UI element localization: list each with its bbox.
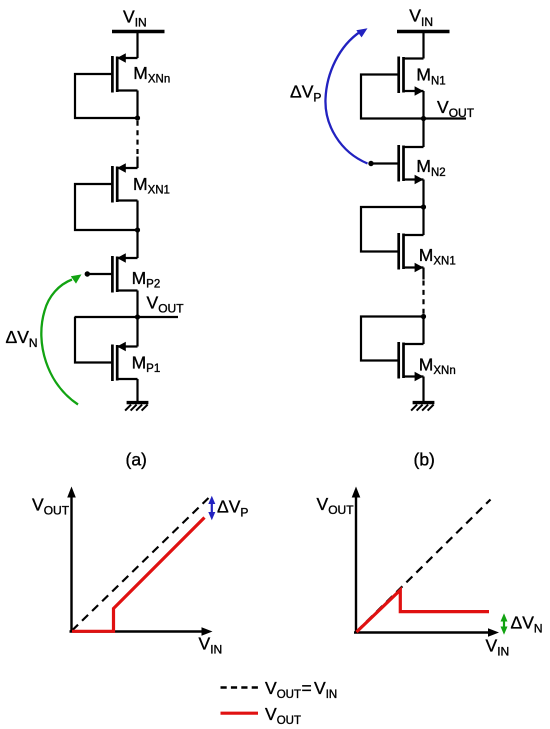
wire MN1 source to VOUT: [422, 91, 424, 119]
svg-text:MP2: MP2: [132, 268, 161, 291]
wire rail to MXNn drain: [136, 32, 138, 59]
GRAPH-LEFT: [32, 487, 248, 657]
wire MN2 gate lead: [373, 162, 398, 164]
svg-text:VOUT: VOUT: [32, 494, 70, 517]
svg-text:MXNn: MXNn: [133, 63, 170, 86]
wire rail to MN1 drain: [422, 32, 424, 59]
svg-text:VIN: VIN: [409, 6, 433, 29]
wire MXNn source to ground (b): [422, 377, 424, 403]
svg-text:VIN: VIN: [486, 635, 510, 658]
curve red VOUT left: [72, 518, 205, 632]
annotation arrow deltaVP measure: [208, 496, 215, 520]
curve dashed ideal left: [72, 498, 209, 631]
curve red VOUT right: [357, 590, 490, 632]
svg-text:MN1: MN1: [416, 65, 445, 88]
wire MXN1 gate diode loop: [75, 184, 138, 230]
transistor MN2: [399, 145, 424, 184]
node VOUT junction dot (a): [135, 314, 140, 319]
node MP2 gate terminal dot: [85, 271, 90, 276]
CIRCUIT-A: [6, 6, 185, 469]
wire MXNn gate diode loop: [75, 74, 138, 118]
svg-text:VOUT: VOUT: [317, 494, 355, 517]
transistor MXNn: [112, 53, 137, 92]
annotation arrow deltaVN measure: [501, 613, 508, 634]
annotation arrow deltaVN arc: [41, 280, 78, 405]
svg-text:VIN: VIN: [199, 633, 223, 656]
wire MP1 gate loop to VOUT: [75, 317, 111, 363]
node VOUT junction dot (b): [421, 116, 426, 121]
wire to MXN1 drain: [136, 157, 138, 169]
wire MXNn source down: [136, 91, 138, 119]
transistor MXN1: [112, 163, 137, 202]
svg-text:MXNn: MXNn: [419, 354, 456, 377]
wire to MXN1 drain (b): [422, 207, 424, 235]
node MN2 gate terminal dot: [368, 161, 373, 166]
x-axis right graph: [354, 631, 489, 633]
wire MP1 source to ground: [136, 379, 138, 402]
wire dashed stack continuation (b): [422, 281, 424, 315]
VIN supply rail (b): [397, 30, 450, 33]
ground (b): [411, 403, 434, 411]
svg-text:MXN1: MXN1: [419, 245, 456, 268]
svg-text:VOUT=VIN: VOUT=VIN: [265, 678, 337, 701]
svg-text:(a): (a): [126, 450, 147, 470]
transistor MP2: [112, 253, 137, 292]
GRAPH-RIGHT: [317, 487, 543, 659]
svg-text:MN2: MN2: [416, 156, 445, 179]
legend dashed line sample: [221, 686, 259, 689]
node junction dot (b1): [421, 204, 426, 209]
svg-text:ΔVN: ΔVN: [6, 327, 38, 350]
wire VOUT node to MP1 drain: [136, 317, 138, 347]
y-axis right graph: [355, 497, 357, 633]
x-axis left graph: [70, 630, 203, 632]
node junction dot (b2): [421, 314, 426, 319]
wire MXN1 gate diode loop (b): [361, 207, 424, 252]
wire to MP2 drain: [136, 230, 138, 258]
wire MN2 source down: [422, 180, 424, 208]
svg-text:ΔVP: ΔVP: [217, 496, 248, 519]
wire MN1 gate diode loop: [361, 75, 424, 119]
wire VOUT to MN2 drain: [422, 119, 424, 148]
transistor MN1: [399, 57, 424, 96]
LEGEND: [221, 678, 338, 727]
wire MP2 source to VOUT: [136, 291, 138, 318]
wire MXN1 source down: [136, 201, 138, 231]
svg-text:VIN: VIN: [123, 6, 147, 29]
transistor MXNn (b): [399, 342, 424, 381]
transistor MP1: [112, 342, 137, 381]
wire to MXNn drain (b): [422, 317, 424, 345]
svg-text:MXN1: MXN1: [133, 174, 170, 197]
ground (a): [125, 403, 148, 411]
CIRCUIT-B: [290, 6, 475, 470]
annotation arrow deltaVP arc: [325, 32, 367, 164]
y-axis left graph: [70, 497, 72, 632]
wire MP2 gate lead: [89, 273, 111, 275]
svg-text:VOUT: VOUT: [265, 704, 301, 727]
svg-text:VOUT: VOUT: [147, 292, 185, 315]
wire dashed stack continuation (a): [136, 121, 138, 157]
legend red line sample: [221, 712, 259, 715]
node junction dot (a2): [135, 227, 140, 232]
svg-text:ΔVP: ΔVP: [290, 81, 321, 104]
svg-text:(b): (b): [414, 450, 435, 470]
svg-text:ΔVN: ΔVN: [511, 612, 543, 635]
wire MXNn gate diode loop (b): [361, 317, 424, 361]
node junction dot (a1): [135, 115, 140, 120]
VIN supply rail (a): [112, 30, 165, 33]
svg-text:VOUT: VOUT: [437, 97, 475, 120]
transistor MXN1 (b): [399, 233, 424, 272]
curve dashed ideal right: [357, 500, 491, 632]
svg-text:MP1: MP1: [132, 352, 161, 375]
node VOUT line (b): [424, 117, 467, 119]
wire MXN1 source down (b): [422, 268, 424, 280]
node VOUT line (a): [75, 316, 179, 318]
